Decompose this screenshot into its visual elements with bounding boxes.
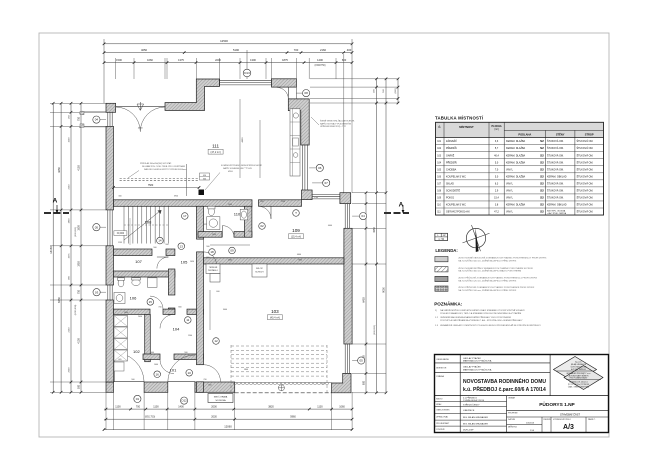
window 109 top W3 xyxy=(312,194,340,196)
svg-text:(40,4 m²): (40,4 m²) xyxy=(270,317,280,320)
svg-text:KERAM. OBKLAD: KERAM. OBKLAD xyxy=(547,175,567,178)
garage door opening bottom xyxy=(235,392,332,394)
top dimension chain row3 xyxy=(104,62,352,64)
door 101 top swing xyxy=(160,360,174,374)
svg-text:9050: 9050 xyxy=(383,287,386,293)
svg-text:ŠTUKOVÁ OM.: ŠTUKOVÁ OM. xyxy=(547,168,564,171)
svg-text:11: 11 xyxy=(186,318,189,322)
svg-text:300: 300 xyxy=(203,178,206,180)
svg-text:ŠTUKOVÁ OM.: ŠTUKOVÁ OM. xyxy=(577,161,594,164)
french door top living room xyxy=(116,107,141,132)
svg-text:GARÁŽ: GARÁŽ xyxy=(446,154,455,157)
right extension lines xyxy=(310,78,398,80)
staircase 108 treads xyxy=(123,207,125,244)
svg-text:(15,4 m²): (15,4 m²) xyxy=(291,236,301,239)
svg-text:(47,2 m²): (47,2 m²) xyxy=(211,151,221,154)
svg-text:ŠTUKOVÁ OM.: ŠTUKOVÁ OM. xyxy=(577,182,594,185)
door 106 entry swing xyxy=(150,296,163,309)
svg-text:Č.: Č. xyxy=(438,124,441,129)
svg-text:10: 10 xyxy=(188,371,192,375)
svg-text:ZÁDVEŘÍ: ZÁDVEŘÍ xyxy=(446,140,457,143)
svg-text:VÝKRESOVÉ ČÍSLO: VÝKRESOVÉ ČÍSLO xyxy=(553,418,571,421)
svg-text:PARÉ Č.: PARÉ Č. xyxy=(588,418,596,421)
svg-text:1400: 1400 xyxy=(154,364,158,366)
svg-text:1800: 1800 xyxy=(78,225,81,231)
svg-text:POZNÁMKA:: POZNÁMKA: xyxy=(434,301,463,307)
left exterior wall segment 2 xyxy=(106,246,114,285)
svg-text:1193: 1193 xyxy=(118,242,122,244)
box 109 fold stairs xyxy=(252,264,267,277)
svg-text:NA TLOUŠŤKU 300 mm, ZDĚNÉ NA L: NA TLOUŠŤKU 300 mm, ZDĚNÉ NA LEPÍCÍ MALT… xyxy=(458,270,521,273)
bathroom 106 fixtures xyxy=(118,279,124,287)
svg-text:NA VNĚJŠÍ MŮŽOU KOMPLETNÍ ZATE: NA VNĚJŠÍ MŮŽOU KOMPLETNÍ ZATEPLOVACÍ ST… xyxy=(440,309,525,312)
svg-text:ZDIVO NOSNÉ VNITŘNÍ Z KERAMICK: ZDIVO NOSNÉ VNITŘNÍ Z KERAMICKÝCH TVÁRNI… xyxy=(458,267,533,270)
svg-text:15: 15 xyxy=(149,300,153,304)
exterior wall top bar A with step xyxy=(165,79,220,110)
svg-text:1075: 1075 xyxy=(69,253,71,259)
left dimension chain 2 xyxy=(60,103,62,392)
left exterior wall segment 3 xyxy=(106,300,114,382)
svg-text:2780: 2780 xyxy=(314,197,318,199)
left extension lines xyxy=(50,102,106,104)
svg-text:PŘEDSÍŇ: PŘEDSÍŇ xyxy=(446,147,457,150)
svg-text:+LAZ. ŠTUK. OMÍTKA: +LAZ. ŠTUK. OMÍTKA xyxy=(547,212,567,215)
svg-text:MILAN GRUBAUER: MILAN GRUBAUER xyxy=(571,363,587,366)
svg-text:ŠTUKOVÁ OM.: ŠTUKOVÁ OM. xyxy=(577,211,594,214)
svg-text:SE ZABETON. OCEL.TRUB. PRO ODV: SE ZABETON. OCEL.TRUB. PRO ODVĚTRÁNÍ xyxy=(142,165,185,168)
svg-text:ZPRACOVAL: ZPRACOVAL xyxy=(436,416,449,419)
door garage from 101 swing xyxy=(204,365,221,382)
interior wall E-W at y309 xyxy=(114,309,151,314)
svg-text:OBJEDNATEL: OBJEDNATEL xyxy=(436,358,450,361)
svg-text:103: 103 xyxy=(271,309,279,314)
window tag 05 left xyxy=(93,224,100,231)
right dimension chains xyxy=(365,193,367,393)
svg-text:3820: 3820 xyxy=(268,405,274,408)
svg-text:107: 107 xyxy=(135,259,142,264)
door right-top swing xyxy=(277,87,289,99)
svg-text:4050: 4050 xyxy=(141,48,147,52)
svg-text:S2: S2 xyxy=(540,181,544,185)
svg-text:1660: 1660 xyxy=(147,58,153,62)
svg-text:ŠTUKOVÁ OM.: ŠTUKOVÁ OM. xyxy=(547,154,564,157)
top extension lines xyxy=(115,58,117,79)
svg-text:OBSAH: OBSAH xyxy=(508,397,516,400)
svg-text:900: 900 xyxy=(153,247,156,249)
svg-text:TEPELNÉ: TEPELNÉ xyxy=(209,266,218,269)
interior wall main E-W xyxy=(114,200,253,207)
bathroom 110 fixtures xyxy=(208,207,214,215)
window left W7 xyxy=(107,285,109,300)
svg-text:STŘEDOČESKÝ: STŘEDOČESKÝ xyxy=(463,404,480,407)
door gap right-top with lines xyxy=(287,87,289,99)
svg-text:KERAM. DLAŽBA: KERAM. DLAŽBA xyxy=(506,154,526,157)
door 105 to nook swing xyxy=(204,252,217,265)
interior wall garage top xyxy=(204,258,344,264)
svg-text:VINYL: VINYL xyxy=(506,197,514,200)
column black near living room xyxy=(199,190,205,196)
svg-text:04: 04 xyxy=(95,118,99,122)
svg-text:17: 17 xyxy=(183,214,187,218)
svg-text:1500: 1500 xyxy=(69,137,71,143)
svg-text:MARTINA LUTZ PTÁČKOVÁ: MARTINA LUTZ PTÁČKOVÁ xyxy=(463,360,492,363)
svg-text:KERAM. DLAŽBA: KERAM. DLAŽBA xyxy=(506,140,526,143)
svg-text:05: 05 xyxy=(95,225,99,229)
bathroom 110 right wall xyxy=(245,206,252,237)
svg-text:12500: 12500 xyxy=(220,39,228,43)
svg-text:1300: 1300 xyxy=(250,58,256,62)
left dimension chain 4 xyxy=(80,103,82,392)
exterior wall right of garage xyxy=(344,228,352,344)
svg-text:ŠTUKOVÁ OM.: ŠTUKOVÁ OM. xyxy=(577,140,594,143)
svg-text:1400: 1400 xyxy=(317,58,323,62)
svg-text:Na Vyhlídce 18, Líbeznice: Na Vyhlídce 18, Líbeznice xyxy=(569,381,588,383)
svg-text:S2: S2 xyxy=(540,188,544,192)
svg-text:108: 108 xyxy=(145,220,152,225)
exterior wall top-left corner xyxy=(106,103,116,112)
svg-text:14: 14 xyxy=(158,239,162,243)
door 012 bottom swing xyxy=(168,355,195,382)
svg-text:10/2013: 10/2013 xyxy=(526,423,535,425)
svg-text:GRUBAUER PROJEKTY s.r.o.: GRUBAUER PROJEKTY s.r.o. xyxy=(566,372,591,375)
exterior wall bottom block B2 xyxy=(195,382,235,392)
svg-text:6450: 6450 xyxy=(57,297,61,303)
svg-text:47,2: 47,2 xyxy=(494,211,499,214)
svg-text:(992,750): (992,750) xyxy=(145,415,155,418)
interior wall corridor left vertical xyxy=(168,269,175,295)
svg-text:300: 300 xyxy=(118,196,121,198)
svg-text:D12: D12 xyxy=(181,399,187,403)
exterior wall top bar C xyxy=(272,79,297,87)
svg-text:600: 600 xyxy=(216,291,219,293)
svg-text:VINYL: VINYL xyxy=(506,182,514,185)
door 110 entry swing xyxy=(222,226,234,238)
window tag 07 right xyxy=(323,179,330,186)
garage floor dashed area xyxy=(231,345,327,347)
interior door tags xyxy=(157,237,164,244)
svg-text:Č.KMN.60/6 A 170/14: Č.KMN.60/6 A 170/14 xyxy=(463,399,485,402)
svg-text:1500: 1500 xyxy=(281,201,285,203)
window tag 08 right-top xyxy=(303,90,310,97)
svg-text:ZDIVO NOSNÉ OBVODOVÉ Z KERAMIC: ZDIVO NOSNÉ OBVODOVÉ Z KERAMICKÝCH TVÁRN… xyxy=(458,257,547,260)
window tag 03 left xyxy=(93,289,100,296)
svg-text:PŘEDSÍŇ: PŘEDSÍŇ xyxy=(446,161,457,164)
svg-text:MÍSTNOST: MÍSTNOST xyxy=(459,124,474,129)
svg-text:S2: S2 xyxy=(540,210,544,214)
svg-text:MÍSTO: MÍSTO xyxy=(436,397,443,400)
svg-text:2200: 2200 xyxy=(215,58,221,62)
svg-text:S2: S2 xyxy=(540,167,544,171)
svg-text:ŠTUKOVÁ OM.: ŠTUKOVÁ OM. xyxy=(577,189,594,192)
svg-text:109: 109 xyxy=(292,228,300,233)
svg-text:5190: 5190 xyxy=(233,48,239,52)
svg-text:MĚŘÍTKO: MĚŘÍTKO xyxy=(508,426,518,429)
window top W1 xyxy=(220,79,272,81)
svg-text:A/3: A/3 xyxy=(563,424,574,431)
svg-text:2430: 2430 xyxy=(228,204,232,206)
svg-text:4100: 4100 xyxy=(78,338,81,344)
svg-text:CHODBA: CHODBA xyxy=(446,168,457,171)
svg-text:2450: 2450 xyxy=(138,316,142,318)
svg-text:01: 01 xyxy=(136,397,140,401)
svg-text:07: 07 xyxy=(325,181,329,185)
svg-text:6450: 6450 xyxy=(363,297,366,303)
svg-text:k.ú. PŘEDBOJ č.parc.60/6 A 170: k.ú. PŘEDBOJ č.parc.60/6 A 170/14 xyxy=(463,385,546,393)
svg-text:(900,600): (900,600) xyxy=(374,325,376,335)
svg-text:09: 09 xyxy=(230,249,234,253)
svg-text:VÁCLAV PTÁČEK: VÁCLAV PTÁČEK xyxy=(463,365,481,368)
living room dashed ceiling line xyxy=(120,178,199,180)
svg-text:S2: S2 xyxy=(540,153,544,157)
svg-text:104: 104 xyxy=(173,327,180,332)
door 107 from corridor swing xyxy=(157,257,169,269)
svg-text:S2: S2 xyxy=(540,196,544,200)
svg-text:900: 900 xyxy=(165,244,168,246)
svg-text:PROFESE: PROFESE xyxy=(508,413,518,415)
window tag 04 left xyxy=(93,116,100,123)
svg-text:ŠTUKOVÁ OM.: ŠTUKOVÁ OM. xyxy=(547,147,564,150)
svg-text:STAVBA: STAVBA xyxy=(436,375,444,378)
svg-text:(1200,600): (1200,600) xyxy=(75,304,77,315)
svg-text:MARTINA LUTZ PTÁČKOVÁ: MARTINA LUTZ PTÁČKOVÁ xyxy=(463,368,492,371)
svg-text:5600: 5600 xyxy=(124,312,128,314)
entrance door 101 swing xyxy=(114,353,144,383)
svg-text:08: 08 xyxy=(304,91,308,95)
svg-text:14150: 14150 xyxy=(49,246,53,254)
svg-text:18: 18 xyxy=(210,250,214,254)
svg-text:1100: 1100 xyxy=(153,405,159,408)
window left W5 xyxy=(107,112,109,126)
svg-text:900: 900 xyxy=(184,352,187,354)
svg-text:ŠTUKOVÁ OM.: ŠTUKOVÁ OM. xyxy=(547,140,564,143)
svg-text:POKOJ: POKOJ xyxy=(446,197,455,200)
svg-text:LÍBEZNICE: LÍBEZNICE xyxy=(463,409,475,412)
svg-text:1800: 1800 xyxy=(69,218,71,224)
window tag 04 right109 xyxy=(360,213,367,220)
wardrobe 102 xyxy=(114,316,128,327)
exterior wall bottom-right corner L xyxy=(332,373,351,392)
svg-text:800: 800 xyxy=(208,385,211,387)
svg-text:900: 900 xyxy=(260,201,263,203)
extension line x343.8 xyxy=(343,54,345,193)
svg-text:2000: 2000 xyxy=(211,405,217,408)
svg-text:1100: 1100 xyxy=(115,405,121,408)
svg-text:500: 500 xyxy=(78,384,81,389)
heat pump box garage xyxy=(206,264,220,274)
bottom dimension chain row1 xyxy=(104,408,352,410)
svg-text:KERAM. DLAŽBA: KERAM. DLAŽBA xyxy=(506,161,526,164)
svg-text:800: 800 xyxy=(206,257,209,259)
window tag 05 right garage xyxy=(358,357,365,364)
exterior wall right-mid corner block xyxy=(302,190,313,200)
svg-text:ŠTUKOVÁ OM.: ŠTUKOVÁ OM. xyxy=(547,182,564,185)
svg-text:700: 700 xyxy=(136,405,141,408)
svg-text:S2: S2 xyxy=(540,139,544,143)
door 109 entry swing xyxy=(259,206,272,219)
svg-text:NA TLOUŠŤKU 500 mm, ZDĚNÉ NA L: NA TLOUŠŤKU 500 mm, ZDĚNÉ NA LEPIDLO PĚN… xyxy=(458,260,517,263)
svg-text:06: 06 xyxy=(318,166,322,170)
window 109 right W4 xyxy=(344,204,346,229)
svg-text:DUR+DSP: DUR+DSP xyxy=(463,430,474,432)
svg-text:04: 04 xyxy=(361,214,365,218)
svg-text:NA TLOUŠŤKU 100 mm, ZDĚNÉ NA L: NA TLOUŠŤKU 100 mm, ZDĚNÉ NA LEPIDLO PĚN… xyxy=(458,289,517,292)
north compass xyxy=(466,228,485,247)
svg-text:NP: NP xyxy=(443,235,447,237)
window left W6 xyxy=(107,210,109,246)
svg-text:SKLAD: SKLAD xyxy=(446,182,454,185)
svg-text:600: 600 xyxy=(342,58,347,62)
svg-text:PODLAHA: PODLAHA xyxy=(518,133,531,137)
room table xyxy=(436,122,604,137)
svg-text:ČERPADLO: ČERPADLO xyxy=(208,269,219,272)
title block xyxy=(435,355,609,433)
svg-text:700: 700 xyxy=(158,307,161,309)
svg-text:1 : 50: 1 : 50 xyxy=(438,239,444,241)
svg-text:1500: 1500 xyxy=(188,335,192,337)
svg-text:T: T xyxy=(295,211,297,215)
svg-text:KOUPELNA S WC: KOUPELNA S WC xyxy=(446,175,466,178)
svg-text:700: 700 xyxy=(203,379,206,381)
svg-text:REVIZE: REVIZE xyxy=(544,419,552,421)
svg-text:S2: S2 xyxy=(540,174,544,178)
svg-text:ŠIKMÉ VENKOVNÍ ŽALUZIE ELEKTR.: ŠIKMÉ VENKOVNÍ ŽALUZIE ELEKTR. xyxy=(320,120,355,123)
exterior wall right upper L xyxy=(288,99,309,145)
svg-text:1875: 1875 xyxy=(282,58,288,62)
page frame xyxy=(39,33,609,437)
svg-text:SCHODIŠTĚ: SCHODIŠTĚ xyxy=(446,189,460,192)
svg-text:800: 800 xyxy=(363,380,366,385)
interior wall 107-106 divider xyxy=(114,271,175,277)
svg-text:1): 1) xyxy=(435,310,437,312)
svg-text:ZDIVO PŘÍČKOVÉ Z KERAMICKÝCH T: ZDIVO PŘÍČKOVÉ Z KERAMICKÝCH TVÁRNIC POR… xyxy=(458,286,535,289)
svg-text:INVESTOR: INVESTOR xyxy=(436,368,447,370)
svg-text:15,4: 15,4 xyxy=(494,197,499,200)
svg-text:(900,600): (900,600) xyxy=(75,227,77,237)
staircase labels small xyxy=(114,231,127,236)
svg-text:3950: 3950 xyxy=(174,196,178,198)
bottom extension lines xyxy=(105,392,107,430)
svg-text:400: 400 xyxy=(347,48,352,52)
svg-text:750: 750 xyxy=(78,116,81,121)
svg-text:ŠTUKOVÁ OM.: ŠTUKOVÁ OM. xyxy=(547,197,564,200)
svg-text:111: 111 xyxy=(212,144,219,149)
svg-text:S2: S2 xyxy=(540,146,544,150)
svg-text:4150: 4150 xyxy=(78,165,81,171)
svg-text:KERAM. DLAŽBA: KERAM. DLAŽBA xyxy=(506,147,526,150)
svg-text:POSTUPY A UMÍSTĚVÁNÍ NA VÝKRES: POSTUPY A UMÍSTĚVÁNÍ NA VÝKRESE Č. A/4 -… xyxy=(440,319,523,322)
svg-text:VINYL: VINYL xyxy=(506,189,514,192)
svg-text:NA TLOUŠŤKU 125 mm, ZDĚNÉ NA L: NA TLOUŠŤKU 125 mm, ZDĚNÉ NA LEPIDLO PĚN… xyxy=(458,279,517,282)
svg-text:POHLEDY NAVAZUJÍCÍ, TEPLO A ST: POHLEDY NAVAZUJÍCÍ, TEPLO A STAVEBNÍ VZD… xyxy=(440,312,521,315)
legend item 3 xyxy=(435,276,448,281)
svg-text:02: 02 xyxy=(260,224,264,228)
svg-text:ŠTUKOVÁ OM.: ŠTUKOVÁ OM. xyxy=(547,161,564,164)
stamp diamond xyxy=(554,357,604,390)
svg-text:KERAM. OBKLAD: KERAM. OBKLAD xyxy=(547,204,567,207)
svg-text:2430: 2430 xyxy=(248,231,252,233)
svg-text:VÁCLAV PTÁČEK: VÁCLAV PTÁČEK xyxy=(463,357,481,360)
svg-text:ŠTUKOVÁ OM.: ŠTUKOVÁ OM. xyxy=(577,204,594,207)
svg-text:UPŘESNÍ INVESTOR) - TYP.: UPŘESNÍ INVESTOR) - TYP. xyxy=(320,125,347,128)
top dimension chain row2 xyxy=(104,52,352,54)
svg-text:PRŮVLAK 300x450(300) VIZ.STAT.: PRŮVLAK 300x450(300) VIZ.STAT. xyxy=(140,162,172,165)
svg-text:OBÝVACÍ POKOJ+KK: OBÝVACÍ POKOJ+KK xyxy=(446,211,470,214)
interior wall garage left vertical xyxy=(197,206,204,239)
svg-text:2430: 2430 xyxy=(212,234,216,236)
scale box xyxy=(435,233,448,240)
svg-text:KERAM. DLAŽBA: KERAM. DLAŽBA xyxy=(506,175,526,178)
svg-text:STROP: STROP xyxy=(585,133,594,137)
door tag 01 bottom xyxy=(134,395,141,402)
grid bubble D13 xyxy=(246,50,248,79)
svg-text:800: 800 xyxy=(178,307,181,309)
svg-text:KOMÍNOVÉ TĚLESO JEDNOPRŮDUCHOV: KOMÍNOVÉ TĚLESO JEDNOPRŮDUCHOVÉ xyxy=(221,164,262,167)
svg-text:900: 900 xyxy=(206,246,209,248)
small fixtures 102 xyxy=(114,362,124,371)
interior dimension lines rooms xyxy=(210,244,250,246)
interior dimension lines living xyxy=(114,187,200,189)
left exterior wall segment 1 xyxy=(106,126,114,209)
svg-text:4600: 4600 xyxy=(138,128,144,130)
bottom dimension chain row3 xyxy=(104,429,352,431)
svg-text:(1500/750): (1500/750) xyxy=(314,65,325,67)
svg-text:±0,000: ±0,000 xyxy=(117,232,125,235)
legend item 2 xyxy=(435,267,448,272)
svg-text:ŠTUKOVÁ OM.: ŠTUKOVÁ OM. xyxy=(577,197,594,200)
svg-text:40,4: 40,4 xyxy=(494,154,499,157)
svg-text:TABULKA MÍSTNOSTÍ: TABULKA MÍSTNOSTÍ xyxy=(435,115,484,120)
svg-text:1950: 1950 xyxy=(78,261,81,267)
interior wall stairs bottom xyxy=(114,249,153,256)
svg-text:1060: 1060 xyxy=(339,405,345,408)
svg-text:1375: 1375 xyxy=(178,58,184,62)
svg-text:4000: 4000 xyxy=(328,225,332,227)
garage drain symbol xyxy=(278,385,284,391)
svg-text:DATUM: DATUM xyxy=(508,418,515,421)
top dimension chain 12500 xyxy=(104,43,352,45)
svg-text:4685: 4685 xyxy=(228,260,232,262)
svg-text:ZDIVO PŘÍČKOVÉ Z KERAMICKÝCH T: ZDIVO PŘÍČKOVÉ Z KERAMICKÝCH TVÁRNIC POR… xyxy=(458,277,537,280)
window tag 06 right xyxy=(316,164,323,171)
svg-text:05: 05 xyxy=(360,359,364,363)
svg-text:700: 700 xyxy=(294,48,299,52)
svg-text:KERAMICKÉ OBKLADY V MÍSTNOSTI: KERAMICKÉ OBKLADY V MÍSTNOSTI Č.106 A 11… xyxy=(440,324,541,327)
svg-text:A: A xyxy=(53,198,58,205)
svg-text:D13: D13 xyxy=(244,71,250,75)
svg-text:101: 101 xyxy=(170,368,177,373)
svg-text:1450: 1450 xyxy=(190,261,194,263)
svg-text:4600: 4600 xyxy=(297,254,301,256)
bottom dimension chain row2 xyxy=(104,418,352,420)
svg-text:450: 450 xyxy=(203,175,206,177)
label box bottom xyxy=(208,394,233,403)
left dimension chain full height xyxy=(52,103,54,392)
svg-text:KOUPELNA S WC: KOUPELNA S WC xyxy=(446,204,466,207)
svg-text:ŠTUKOVÁ OM.: ŠTUKOVÁ OM. xyxy=(547,189,564,192)
svg-text:ŠTUKOVÁ OM.: ŠTUKOVÁ OM. xyxy=(577,154,594,157)
svg-text:SKLOP.: SKLOP. xyxy=(256,268,263,270)
svg-text:4650: 4650 xyxy=(373,227,376,233)
svg-text:5960: 5960 xyxy=(290,415,296,418)
svg-text:16: 16 xyxy=(156,372,160,376)
svg-text:ŠTUKOVÁ OM.: ŠTUKOVÁ OM. xyxy=(577,168,594,171)
svg-text:OBEC/OKRES: OBEC/OKRES xyxy=(436,410,450,412)
window right W2 xyxy=(301,145,303,190)
svg-text:13: 13 xyxy=(180,244,184,248)
svg-text:(m²): (m²) xyxy=(494,128,499,131)
exterior wall bottom block B1 xyxy=(144,382,168,392)
svg-text:RADONU 2xDN100 KRYTÍ POTRUBÍ 5: RADONU 2xDN100 KRYTÍ POTRUBÍ 50/50mm xyxy=(144,168,187,171)
